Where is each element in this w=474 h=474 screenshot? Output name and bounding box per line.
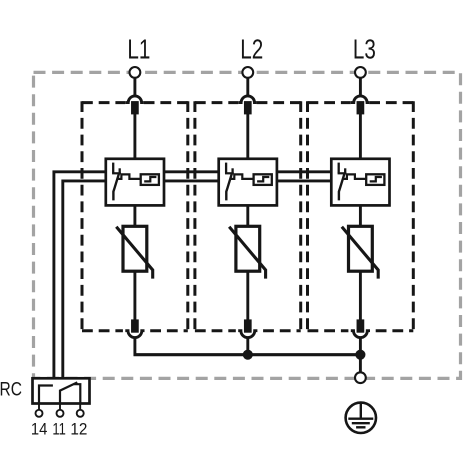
wire varistor to bottom plug (L1) [133,271,136,320]
plug-in connector bottom (L2 module) [238,319,257,337]
plug-in connector bottom (L1 module) [125,319,144,337]
svg-text:L2: L2 [240,34,263,65]
ground (protective earth symbol) [346,403,376,433]
svg-text:L3: L3 [353,34,376,65]
plug-in connector bottom (L3 module) [351,319,370,337]
wire bottom plug to PE bus (L3) [359,338,362,356]
wire L3 terminal to plug [359,78,362,96]
terminal 14 [38,404,40,411]
varistor (L2 module) [229,226,265,278]
svg-text:11: 11 [52,420,66,439]
thermal disconnector with status indicator (L1 module) [106,159,164,206]
terminal 12 [79,404,81,411]
wire plug to disconnector (L2) [246,114,249,161]
remote signalling contact RC (changeover switch) [33,378,90,403]
wire disconnector to varistor (L3) [359,205,362,227]
module border (L2 protection path), dashed [195,101,301,332]
wire L1 terminal to plug [133,78,136,96]
thermal disconnector with status indicator (L2 module) [219,159,277,206]
wire bus to PE terminal [359,355,362,372]
module border (L1 protection path), dashed [82,101,188,332]
junction L3/PE bus [355,350,365,360]
terminal 11 [59,404,61,411]
PE terminal [355,372,366,383]
svg-text:RC: RC [0,380,22,401]
PE bus wire [134,353,361,356]
terminal L1 [130,67,141,78]
svg-text:14: 14 [31,420,48,439]
thermal disconnector with status indicator (L3 module) [331,159,389,206]
wire varistor to bottom plug (L2) [246,271,249,320]
wire L2 terminal to plug [246,78,249,96]
wire disconnector to varistor (L1) [133,205,136,227]
terminal L3 [355,67,366,78]
wire bottom plug to PE bus (L1) [133,338,136,356]
wire varistor to bottom plug (L3) [359,271,362,320]
junction L2/PE bus [243,350,253,360]
wire plug to disconnector (L1) [133,114,136,161]
svg-text:L1: L1 [127,34,150,65]
svg-text:12: 12 [70,420,87,439]
wire disconnector to varistor (L2) [246,205,249,227]
signalling line lower (RC to disconnectors) [63,181,106,379]
varistor (L3 module) [342,226,378,278]
plug-in connector top (L3 module) [351,96,369,115]
varistor (L1 module) [116,226,152,278]
plug-in connector top (L1 module) [125,96,143,115]
plug-in connector top (L2 module) [238,96,256,115]
signalling links between module 2 and 3 [277,172,331,181]
wire bottom plug to PE bus (L2) [246,338,249,356]
module border (L3 protection path), dashed [308,101,414,332]
terminal L2 [242,67,253,78]
enclosure border (device housing), grey dashed [34,72,461,378]
wire plug to disconnector (L3) [359,114,362,161]
signalling links between module 1 and 2 [164,172,219,181]
signalling line upper (RC to disconnectors) [54,172,106,379]
